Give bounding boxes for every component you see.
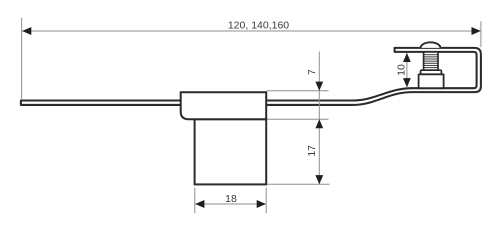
- nut block: [419, 74, 444, 88]
- svg-text:18: 18: [225, 193, 237, 205]
- arrow 18 left: [195, 200, 204, 208]
- dimension line top: [22, 30, 481, 32]
- arrow top-right: [472, 27, 481, 35]
- node cap: plate with rounded lower-left corner: [181, 92, 267, 119]
- svg-text:7: 7: [306, 69, 318, 75]
- arrow 7 down: [315, 82, 323, 91]
- extension line body bottom: [267, 183, 329, 185]
- svg-text:10: 10: [395, 64, 407, 76]
- dimension line for 7 and 17: [318, 52, 320, 185]
- wire: bent metal strip profile: [21, 48, 481, 105]
- arrow top-left: [22, 27, 31, 35]
- arrow 10 down: [403, 78, 411, 87]
- svg-text:120, 140,160: 120, 140,160: [228, 19, 289, 31]
- arrow shared up: [315, 119, 323, 128]
- bolt head dome: [421, 42, 441, 48]
- dimension line 10: [406, 53, 408, 87]
- extension line 18 left: [194, 188, 196, 214]
- extension line cap bottom: [267, 118, 328, 120]
- extension line cap top: [267, 90, 329, 92]
- extension line left (top dim): [21, 18, 23, 100]
- svg-text:17: 17: [306, 145, 318, 157]
- washer collar: [421, 70, 442, 74]
- extension line 18 right: [265, 188, 267, 214]
- dimension line 18: [195, 203, 266, 205]
- arrow 10 up: [403, 53, 411, 62]
- extension line right (top dim): [480, 21, 482, 47]
- arrow 17 down: [315, 175, 323, 184]
- node body: lower square block: [195, 119, 267, 184]
- arrow 18 right: [257, 200, 266, 208]
- bolt shank with thread hatching: [424, 52, 438, 70]
